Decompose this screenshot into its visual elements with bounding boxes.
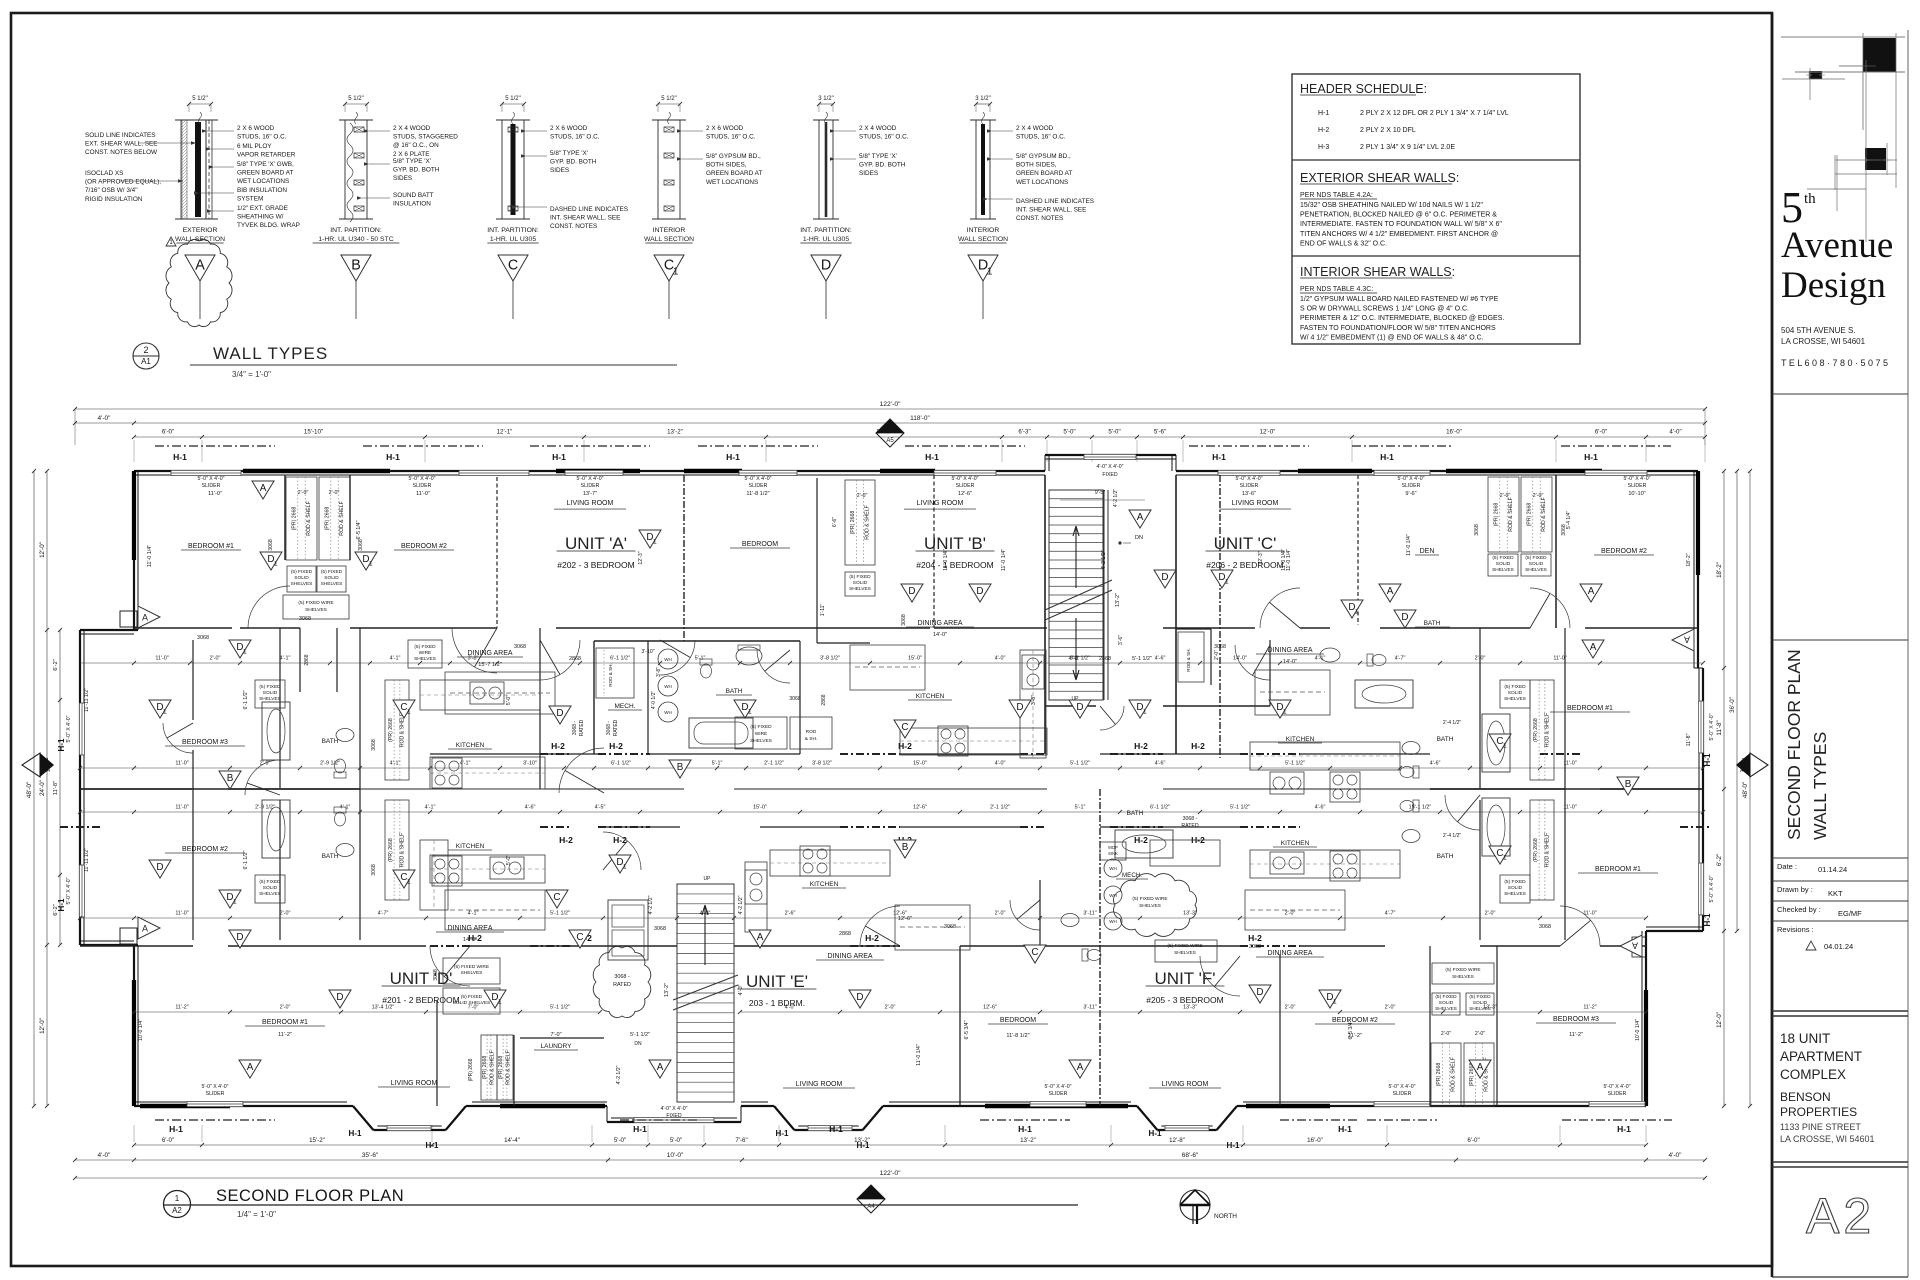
svg-text:4'-2 1/2": 4'-2 1/2": [1113, 489, 1119, 508]
svg-text:B: B: [902, 842, 909, 853]
svg-text:Revisions :: Revisions :: [1777, 925, 1814, 934]
unit C entry nook: [1176, 628, 1211, 630]
svg-text:INTERIOR: INTERIOR: [967, 227, 1000, 234]
svg-text:H-1: H-1: [1212, 452, 1226, 462]
svg-text:H-1: H-1: [633, 1124, 647, 1134]
svg-text:#201 - 2 BEDROOM: #201 - 2 BEDROOM: [382, 995, 459, 1005]
svg-text:A5: A5: [886, 438, 894, 444]
svg-text:15'-0": 15'-0": [753, 805, 767, 811]
svg-text:ROD & SH.: ROD & SH.: [608, 663, 613, 686]
svg-text:Date :: Date :: [1777, 862, 1797, 871]
svg-text:4'-1": 4'-1": [460, 761, 471, 767]
svg-text:4'-2 1/2": 4'-2 1/2": [1101, 550, 1107, 569]
svg-text:5 1/2": 5 1/2": [192, 96, 207, 102]
svg-text:(5) FIXED: (5) FIXED: [259, 879, 281, 885]
svg-text:11'-11 1/2": 11'-11 1/2": [84, 848, 90, 872]
svg-text:H-2: H-2: [865, 933, 879, 943]
svg-text:SLIDER: SLIDER: [413, 483, 432, 489]
svg-text:3068: 3068: [1539, 924, 1551, 930]
svg-text:2'-0": 2'-0": [1385, 1005, 1396, 1011]
svg-text:SYSTEM: SYSTEM: [237, 196, 263, 203]
svg-text:UNIT 'F': UNIT 'F': [1155, 969, 1216, 988]
svg-text:1: 1: [369, 561, 373, 568]
svg-text:4'-2 1/2": 4'-2 1/2": [616, 1065, 622, 1084]
svg-text:SOLID: SOLID: [1508, 690, 1523, 696]
svg-text:2'-0": 2'-0": [329, 490, 340, 496]
svg-text:1: 1: [498, 999, 502, 1006]
svg-text:6'-1 1/2": 6'-1 1/2": [243, 690, 249, 709]
svg-text:5/8" TYPE 'X': 5/8" TYPE 'X': [859, 153, 897, 160]
svg-text:H-1: H-1: [426, 1141, 439, 1150]
svg-text:H-1: H-1: [1703, 913, 1712, 926]
svg-text:3'-8 1/2": 3'-8 1/2": [812, 761, 832, 767]
svg-text:5'-0": 5'-0": [506, 855, 512, 865]
svg-text:15/32" OSB SHEATHING NAILED W/: 15/32" OSB SHEATHING NAILED W/ 10d NAILS…: [1300, 202, 1484, 209]
svg-text:(PR) 2668: (PR) 2668: [324, 507, 330, 531]
svg-text:(PR) 2668: (PR) 2668: [498, 1056, 504, 1080]
svg-text:H-1: H-1: [173, 452, 187, 462]
svg-text:A: A: [1684, 635, 1690, 645]
svg-text:GYP. BD. BOTH: GYP. BD. BOTH: [550, 159, 597, 166]
svg-text:1: 1: [653, 539, 657, 546]
svg-text:6'-3": 6'-3": [1018, 429, 1030, 436]
unit C bath cluster (mirror): [1163, 705, 1270, 707]
svg-text:(5) FIXED: (5) FIXED: [414, 644, 436, 650]
svg-text:H-1: H-1: [857, 1141, 870, 1150]
svg-text:10'-0": 10'-0": [667, 1152, 684, 1159]
wall type detail C1: [657, 120, 659, 219]
svg-text:SLIDER: SLIDER: [202, 483, 221, 489]
svg-text:SECOND FLOOR PLAN: SECOND FLOOR PLAN: [216, 1187, 404, 1205]
svg-text:Checked by :: Checked by :: [1777, 905, 1821, 914]
svg-text:1: 1: [1503, 743, 1507, 750]
svg-text:2: 2: [1741, 758, 1744, 764]
svg-text:CONST. NOTES BELOW: CONST. NOTES BELOW: [85, 149, 158, 156]
svg-text:C: C: [1031, 947, 1038, 958]
svg-text:(5) FIXED: (5) FIXED: [1504, 879, 1526, 885]
svg-text:(5) FIXED: (5) FIXED: [750, 724, 772, 730]
svg-text:2 X 6 WOOD: 2 X 6 WOOD: [237, 125, 275, 132]
svg-text:12'-0": 12'-0": [1716, 1012, 1723, 1028]
svg-text:2'-1 1/2": 2'-1 1/2": [764, 761, 784, 767]
svg-text:5'-1 1/2": 5'-1 1/2": [630, 1032, 650, 1038]
svg-text:5'-0" X 4'-0": 5'-0" X 4'-0": [1603, 1084, 1630, 1090]
svg-text:SHELVES: SHELVES: [461, 970, 483, 976]
svg-text:5'-1 1/2": 5'-1 1/2": [1132, 656, 1152, 662]
svg-text:SOLID: SOLID: [853, 580, 868, 586]
svg-text:2 X 4 WOOD: 2 X 4 WOOD: [1016, 125, 1054, 132]
svg-text:STUDS, 16" O.C.: STUDS, 16" O.C.: [706, 134, 756, 141]
svg-text:01.14.24: 01.14.24: [1818, 865, 1847, 874]
svg-text:PROPERTIES: PROPERTIES: [1780, 1105, 1857, 1119]
svg-text:5'-0" X 4'-0": 5'-0" X 4'-0": [1709, 713, 1715, 740]
svg-text:SLIDER: SLIDER: [749, 483, 768, 489]
svg-text:H-2: H-2: [1134, 741, 1148, 751]
unit A tub: [689, 718, 753, 748]
svg-text:BEDROOM #2: BEDROOM #2: [1332, 1017, 1378, 1024]
north arrow: [1180, 1190, 1210, 1220]
svg-text:(PR) 2668: (PR) 2668: [482, 1056, 488, 1080]
mid dim row y=768: [80, 767, 1703, 769]
svg-text:4'-0": 4'-0": [98, 1152, 112, 1159]
svg-text:H-3: H-3: [1318, 144, 1329, 151]
svg-text:INTERMEDIATE. FASTEN TO FOUNDA: INTERMEDIATE. FASTEN TO FOUNDATION WALL …: [1300, 221, 1502, 228]
svg-text:D: D: [236, 932, 243, 943]
svg-text:3068: 3068: [514, 644, 526, 650]
svg-text:4'-0": 4'-0": [738, 984, 744, 995]
svg-text:3'-11": 3'-11": [1083, 911, 1096, 917]
svg-text:H-2: H-2: [1191, 741, 1205, 751]
svg-text:2'-0": 2'-0": [1475, 1031, 1485, 1037]
plan title: [164, 1191, 191, 1218]
svg-text:ROD & SHELF: ROD & SHELF: [489, 1050, 495, 1085]
svg-text:4'-7": 4'-7": [1385, 911, 1396, 917]
svg-text:11'-2": 11'-2": [278, 1032, 292, 1038]
svg-text:(PR) 2668: (PR) 2668: [1526, 503, 1532, 527]
svg-text:A: A: [1077, 1062, 1084, 1073]
svg-text:DINING AREA: DINING AREA: [827, 953, 872, 960]
svg-text:INT. SHEAR WALL, SEE: INT. SHEAR WALL, SEE: [550, 215, 620, 222]
svg-text:1: 1: [1355, 609, 1359, 616]
sideways A markers at steps: [138, 606, 160, 628]
svg-text:11'-0 1/4": 11'-0 1/4": [1406, 534, 1412, 556]
svg-text:D: D: [1401, 612, 1408, 623]
svg-text:LIVING ROOM: LIVING ROOM: [1162, 1081, 1209, 1088]
svg-text:4'-0": 4'-0": [995, 761, 1006, 767]
svg-text:5'-0": 5'-0": [670, 1137, 682, 1144]
wall type detail C: [501, 120, 503, 219]
svg-text:3 1/2": 3 1/2": [818, 96, 833, 102]
svg-text:5'-1 1/2": 5'-1 1/2": [1230, 805, 1250, 811]
svg-text:A: A: [1590, 642, 1597, 653]
svg-text:5'-4 1/4": 5'-4 1/4": [1566, 511, 1572, 530]
svg-text:W/ 4 1/2" EMBEDMENT (1) @ END: W/ 4 1/2" EMBEDMENT (1) @ END OF WALLS &…: [1300, 334, 1484, 341]
svg-text:3068: 3068: [197, 635, 209, 641]
svg-text:12'-0": 12'-0": [39, 1018, 46, 1034]
svg-text:DINING AREA: DINING AREA: [447, 925, 492, 932]
svg-text:D: D: [1016, 702, 1023, 713]
svg-text:1: 1: [1225, 579, 1229, 586]
svg-text:2'-0": 2'-0": [1214, 650, 1220, 660]
svg-text:BEDROOM #1: BEDROOM #1: [188, 543, 234, 550]
svg-text:A2: A2: [1806, 1188, 1875, 1244]
svg-text:5'-0" X 4'-0": 5'-0" X 4'-0": [408, 476, 435, 482]
svg-text:A: A: [1477, 1062, 1484, 1073]
svg-text:MOP: MOP: [1108, 845, 1118, 850]
svg-text:BATH: BATH: [1437, 736, 1454, 743]
svg-text:(5) FIXED: (5) FIXED: [1469, 994, 1491, 1000]
svg-text:BATH: BATH: [1424, 620, 1441, 627]
svg-text:ROD & SHELF: ROD & SHELF: [505, 1050, 511, 1085]
svg-text:1-HR. UL U340 - 50 STC: 1-HR. UL U340 - 50 STC: [318, 236, 393, 243]
svg-text:6'-2": 6'-2": [1716, 854, 1723, 866]
svg-text:SHELVES: SHELVES: [849, 586, 871, 592]
svg-text:6'-2": 6'-2": [53, 659, 59, 671]
svg-text:7'-0": 7'-0": [468, 1005, 479, 1011]
svg-text:3/4" = 1'-0": 3/4" = 1'-0": [232, 370, 271, 379]
svg-text:(5) FIXED: (5) FIXED: [1504, 684, 1526, 690]
svg-text:#206 - 2 BEDROOM: #206 - 2 BEDROOM: [1206, 560, 1283, 570]
svg-text:STUDS, 16" O.C.: STUDS, 16" O.C.: [237, 134, 287, 141]
unit A closet (5) fixed wire: [735, 717, 787, 749]
svg-text:DASHED LINE INDICATES: DASHED LINE INDICATES: [1016, 198, 1094, 205]
closet columns between BR1/BR2 (unit at far left top): [286, 477, 317, 560]
svg-text:4'-7": 4'-7": [378, 911, 389, 917]
svg-text:KITCHEN: KITCHEN: [1286, 736, 1315, 743]
svg-text:5'-0" X 4'-0": 5'-0" X 4'-0": [576, 476, 603, 482]
svg-text:RATED: RATED: [579, 719, 585, 736]
svg-text:SHELVES: SHELVES: [1174, 950, 1196, 956]
svg-text:A: A: [195, 257, 205, 273]
svg-text:12'-6": 12'-6": [983, 1005, 997, 1011]
svg-text:(PR) 2668: (PR) 2668: [388, 718, 394, 742]
svg-text:@ 16" O.C., ON: @ 16" O.C., ON: [393, 142, 439, 149]
header schedule box: [1292, 74, 1580, 344]
svg-text:2'-6": 2'-6": [785, 911, 796, 917]
svg-text:#202 - 3 BEDROOM: #202 - 3 BEDROOM: [557, 560, 634, 570]
svg-text:BEDROOM #1: BEDROOM #1: [1567, 705, 1613, 712]
svg-text:GYP. BD. BOTH: GYP. BD. BOTH: [393, 167, 440, 174]
svg-text:11'-8": 11'-8": [1716, 720, 1723, 735]
svg-text:KITCHEN: KITCHEN: [456, 742, 485, 749]
svg-text:11'-8 1/2": 11'-8 1/2": [746, 491, 769, 497]
svg-text:SHELVES: SHELVES: [321, 581, 343, 587]
svg-text:KITCHEN: KITCHEN: [1281, 840, 1310, 847]
svg-text:15'-7 1/2": 15'-7 1/2": [478, 662, 502, 668]
svg-text:FASTEN TO FOUNDATION/FLOOR W/: FASTEN TO FOUNDATION/FLOOR W/ 5/8" TITEN…: [1300, 325, 1496, 332]
title block column: [1771, 13, 1774, 1277]
svg-text:18'-2": 18'-2": [1716, 562, 1723, 578]
svg-text:SOLID LINE INDICATES: SOLID LINE INDICATES: [85, 132, 156, 139]
svg-text:LIVING ROOM: LIVING ROOM: [917, 500, 964, 507]
svg-text:DASHED LINE INDICATES: DASHED LINE INDICATES: [550, 206, 628, 213]
svg-text:WH: WH: [664, 684, 672, 689]
svg-text:H-1: H-1: [552, 452, 566, 462]
svg-text:SHELVES: SHELVES: [750, 738, 772, 744]
svg-text:5'-0" X 4'-0": 5'-0" X 4'-0": [66, 877, 72, 904]
svg-text:STUDS, 16" O.C.: STUDS, 16" O.C.: [859, 134, 909, 141]
svg-text:UNIT 'C': UNIT 'C': [1214, 534, 1277, 553]
svg-text:(PR) 2668: (PR) 2668: [850, 511, 856, 535]
svg-text:ROD & SHELF: ROD & SHELF: [400, 833, 406, 868]
svg-text:D: D: [1161, 572, 1168, 583]
svg-text:(PR) 2668: (PR) 2668: [291, 507, 297, 531]
svg-text:5/8" TYPE 'X': 5/8" TYPE 'X': [393, 158, 431, 165]
svg-text:UP: UP: [704, 876, 712, 882]
svg-text:1: 1: [274, 561, 278, 568]
svg-text:48'-0": 48'-0": [26, 781, 33, 798]
svg-text:BATH: BATH: [1437, 853, 1454, 860]
svg-text:COMPLEX: COMPLEX: [1780, 1067, 1846, 1082]
svg-text:4'-0": 4'-0": [98, 415, 112, 422]
svg-text:1'-11": 1'-11": [820, 604, 826, 617]
svg-text:D: D: [1076, 702, 1083, 713]
svg-text:SOLID: SOLID: [1508, 885, 1523, 891]
svg-text:BEDROOM #3: BEDROOM #3: [1553, 1016, 1599, 1023]
svg-text:RATED: RATED: [1181, 823, 1198, 829]
svg-text:MECH.: MECH.: [615, 703, 636, 710]
svg-text:13'-3": 13'-3": [1183, 1005, 1197, 1011]
svg-text:4'-1": 4'-1": [1315, 656, 1326, 662]
svg-text:6'-1 1/2": 6'-1 1/2": [611, 761, 631, 767]
svg-text:SINK: SINK: [1108, 851, 1118, 856]
svg-text:6'-0": 6'-0": [162, 1137, 174, 1144]
svg-text:SOUND BATT: SOUND BATT: [393, 192, 434, 199]
svg-text:D: D: [156, 862, 163, 873]
svg-text:6 MIL PLOY: 6 MIL PLOY: [237, 143, 272, 150]
svg-text:A: A: [657, 1062, 664, 1073]
corridor/kitchen H-2 walls y=754: [540, 753, 572, 755]
svg-text:2'-0": 2'-0": [1285, 911, 1296, 917]
corridor/kitchen H-2 walls y=827: [60, 826, 100, 828]
svg-text:4'-0" X 4'-0": 4'-0" X 4'-0": [660, 1106, 687, 1112]
top band bedroom bottom wall y=628: [134, 627, 232, 629]
svg-text:UNIT 'D': UNIT 'D': [390, 969, 453, 988]
svg-text:122'-0": 122'-0": [879, 401, 901, 408]
svg-text:1: 1: [1143, 709, 1147, 716]
svg-text:LAUNDRY: LAUNDRY: [541, 1043, 573, 1050]
exterior walls outline: [134, 470, 1045, 472]
svg-text:3068: 3068: [371, 739, 377, 751]
svg-text:ROD: ROD: [806, 729, 817, 735]
svg-text:3068 -: 3068 -: [1183, 816, 1198, 822]
svg-text:H-2: H-2: [468, 933, 482, 943]
svg-text:(OR APPROVED EQUAL),: (OR APPROVED EQUAL),: [85, 179, 161, 186]
svg-text:4'-6": 4'-6": [525, 805, 536, 811]
svg-text:35'-6": 35'-6": [362, 1152, 379, 1159]
svg-text:SLIDER: SLIDER: [1628, 483, 1647, 489]
svg-text:A4: A4: [1740, 768, 1746, 774]
svg-text:SOLID: SOLID: [324, 575, 339, 581]
svg-text:VAPOR RETARDER: VAPOR RETARDER: [237, 152, 296, 159]
svg-text:H-1: H-1: [925, 452, 939, 462]
svg-text:3 1/2": 3 1/2": [975, 96, 990, 102]
svg-text:3068: 3068: [299, 616, 311, 622]
svg-text:1: 1: [407, 879, 411, 886]
svg-text:3068 -: 3068 -: [614, 974, 629, 980]
svg-text:5'-0" X 4'-0": 5'-0" X 4'-0": [744, 476, 771, 482]
svg-text:5'-0" X 4'-0": 5'-0" X 4'-0": [1235, 476, 1262, 482]
svg-text:A: A: [247, 1062, 254, 1073]
svg-text:LIVING ROOM: LIVING ROOM: [391, 1080, 438, 1087]
svg-text:2'-4 1/2": 2'-4 1/2": [1443, 833, 1462, 839]
bottom dimension strings: [134, 1144, 1646, 1146]
svg-text:SIDES: SIDES: [550, 167, 569, 174]
svg-text:GREEN BOARD AT: GREEN BOARD AT: [237, 170, 293, 177]
svg-text:4'-6": 4'-6": [1155, 656, 1166, 662]
svg-text:SHELVES: SHELVES: [1435, 1006, 1457, 1012]
svg-text:WIRE: WIRE: [755, 731, 768, 737]
svg-text:T E L 6 0 8 · 7 8 0 · 5 0 7 5: T E L 6 0 8 · 7 8 0 · 5 0 7 5: [1781, 358, 1888, 368]
svg-text:APARTMENT: APARTMENT: [1780, 1049, 1862, 1064]
svg-text:D: D: [976, 586, 983, 597]
mid dim row y=663: [80, 662, 1703, 664]
svg-text:68'-6": 68'-6": [1182, 1152, 1199, 1159]
svg-text:BEDROOM #2: BEDROOM #2: [182, 846, 228, 853]
svg-text:13'-2": 13'-2": [667, 429, 683, 436]
svg-text:SHELVES: SHELVES: [1504, 891, 1526, 897]
svg-text:2 X 6 WOOD: 2 X 6 WOOD: [706, 125, 744, 132]
svg-text:(5) FIXED WIRE: (5) FIXED WIRE: [1445, 967, 1480, 973]
svg-text:11'-0": 11'-0": [416, 491, 430, 497]
svg-text:5/8" TYPE 'X': 5/8" TYPE 'X': [550, 150, 588, 157]
svg-text:2868: 2868: [821, 694, 827, 705]
unit B bedroom wall: [816, 478, 818, 643]
svg-text:KITCHEN: KITCHEN: [456, 843, 485, 850]
svg-text:UNIT 'B': UNIT 'B': [924, 534, 986, 553]
svg-text:12'-6": 12'-6": [913, 805, 927, 811]
svg-text:14'-0": 14'-0": [1283, 659, 1297, 665]
svg-text:BATH: BATH: [726, 688, 743, 695]
svg-text:14'-0": 14'-0": [1233, 656, 1247, 662]
svg-text:EG/MF: EG/MF: [1838, 909, 1862, 918]
svg-text:1: 1: [673, 267, 679, 278]
svg-text:3'-8": 3'-8": [656, 667, 662, 677]
svg-text:FIXED: FIXED: [666, 1113, 682, 1119]
svg-text:SOLID: SOLID: [1496, 561, 1511, 567]
svg-text:3068: 3068: [1214, 644, 1226, 650]
svg-text:3068: 3068: [901, 614, 907, 626]
double divider: [1772, 1010, 1908, 1012]
svg-text:4'-0": 4'-0": [995, 656, 1006, 662]
svg-text:16'-0": 16'-0": [1446, 429, 1462, 436]
svg-text:A: A: [1632, 941, 1638, 951]
svg-text:2'-0": 2'-0": [1500, 493, 1511, 499]
svg-text:5/8" TYPE 'X' GWB,: 5/8" TYPE 'X' GWB,: [237, 161, 294, 168]
unit D lower kitchen counters: [420, 840, 448, 910]
svg-text:SLIDER: SLIDER: [1608, 1091, 1627, 1097]
svg-text:A1: A1: [141, 357, 151, 366]
svg-text:BEDROOM #1: BEDROOM #1: [262, 1019, 308, 1026]
svg-text:SOLID: SOLID: [294, 575, 309, 581]
svg-text:5'-1 1/2": 5'-1 1/2": [1285, 761, 1305, 767]
svg-text:4: 4: [45, 758, 48, 764]
svg-text:12'-3": 12'-3": [638, 551, 644, 564]
svg-text:RATED: RATED: [613, 982, 631, 988]
svg-text:7'-6": 7'-6": [735, 1137, 747, 1144]
svg-text:4'-0" X 4'-0": 4'-0" X 4'-0": [1096, 464, 1123, 470]
svg-text:BENSON: BENSON: [1780, 1090, 1831, 1104]
svg-text:1: 1: [407, 709, 411, 716]
svg-text:th: th: [1804, 191, 1816, 207]
svg-text:203 - 1 BDRM.: 203 - 1 BDRM.: [749, 998, 805, 1008]
svg-text:2 PLY 1 3/4" X 9 1/4" LVL 2.0E: 2 PLY 1 3/4" X 9 1/4" LVL 2.0E: [1360, 144, 1455, 151]
svg-text:18'-2": 18'-2": [1686, 553, 1692, 566]
svg-text:2: 2: [143, 345, 148, 355]
svg-text:6'-5 3/4": 6'-5 3/4": [964, 1020, 970, 1039]
svg-text:KITCHEN: KITCHEN: [810, 881, 839, 888]
svg-text:ROD & SH.: ROD & SH.: [1186, 648, 1191, 671]
svg-text:10'-0 1/4": 10'-0 1/4": [138, 1019, 144, 1041]
svg-text:KKT: KKT: [1828, 889, 1843, 898]
svg-text:1: 1: [1503, 855, 1507, 862]
svg-text:CONST. NOTES: CONST. NOTES: [1016, 215, 1063, 222]
svg-text:H-1: H-1: [57, 738, 66, 751]
svg-text:Avenue: Avenue: [1781, 225, 1893, 266]
svg-text:BEDROOM: BEDROOM: [742, 541, 778, 548]
svg-text:11'-2": 11'-2": [175, 1005, 188, 1011]
svg-text:10'-10": 10'-10": [1628, 491, 1645, 497]
svg-text:2'-0": 2'-0": [857, 493, 868, 499]
svg-text:ROD & SHELF: ROD & SHELF: [400, 713, 406, 748]
svg-text:ROD & SHELF: ROD & SHELF: [1450, 1057, 1456, 1092]
svg-text:STUDS, 16" O.C.: STUDS, 16" O.C.: [550, 134, 600, 141]
bottom band: unit D bedroom/closets: [436, 1000, 438, 1106]
svg-text:WALL SECTION: WALL SECTION: [175, 236, 225, 243]
svg-text:11'-8 1/2": 11'-8 1/2": [1006, 1033, 1029, 1039]
svg-text:13'-2": 13'-2": [1115, 593, 1121, 607]
svg-text:3068: 3068: [944, 924, 956, 930]
